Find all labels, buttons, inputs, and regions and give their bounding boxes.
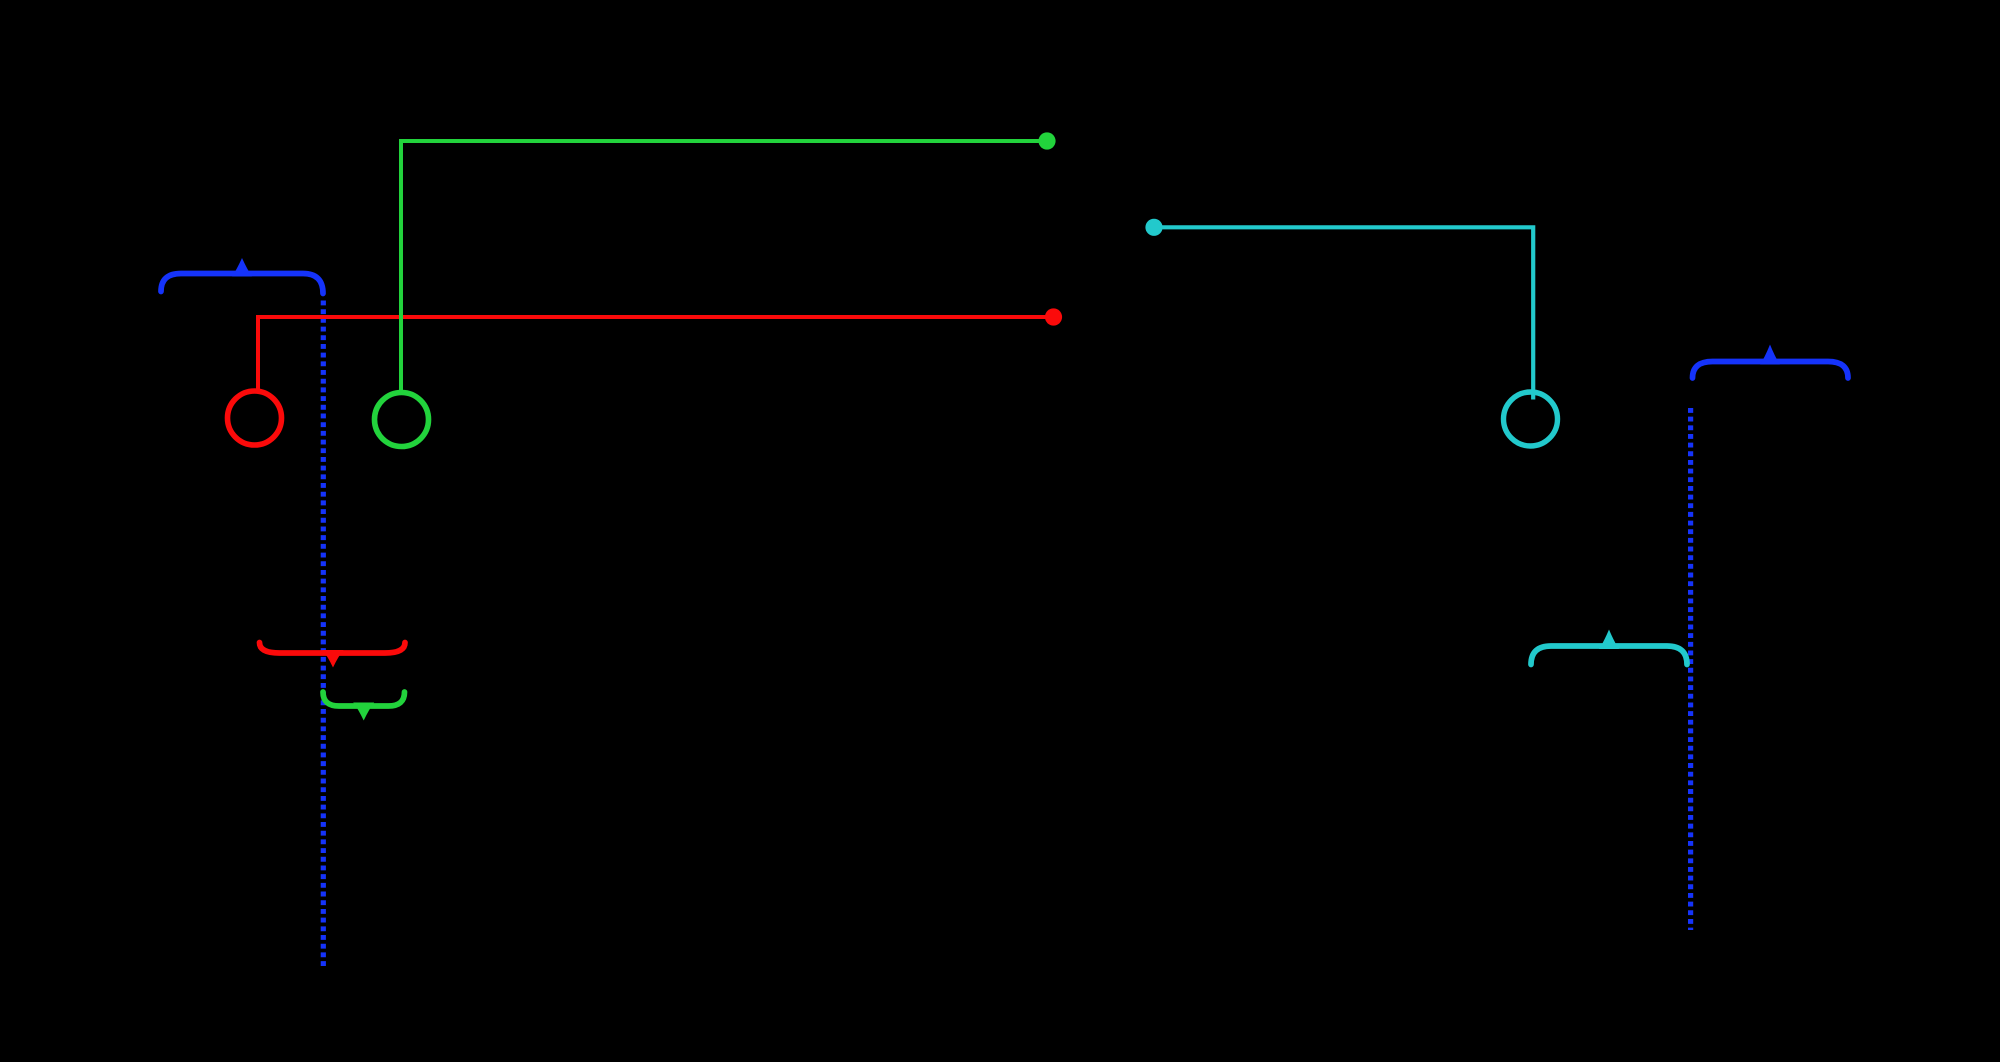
green wire: [401, 141, 1047, 391]
blue brace left: [161, 258, 323, 294]
red brace: [260, 643, 406, 668]
blue dotted line left: [321, 301, 326, 967]
red circle marker: [228, 391, 282, 445]
blue dotted line right: [1688, 408, 1693, 930]
cyan circle marker: [1504, 392, 1558, 446]
red endpoint dot: [1045, 308, 1062, 325]
green circle marker: [375, 393, 429, 447]
green endpoint dot: [1038, 132, 1055, 149]
cyan wire: [1154, 227, 1533, 399]
green brace: [323, 692, 405, 721]
cyan brace: [1531, 630, 1687, 665]
red wire: [258, 317, 1054, 389]
cyan endpoint dot: [1145, 219, 1162, 236]
blue brace right: [1693, 345, 1849, 379]
